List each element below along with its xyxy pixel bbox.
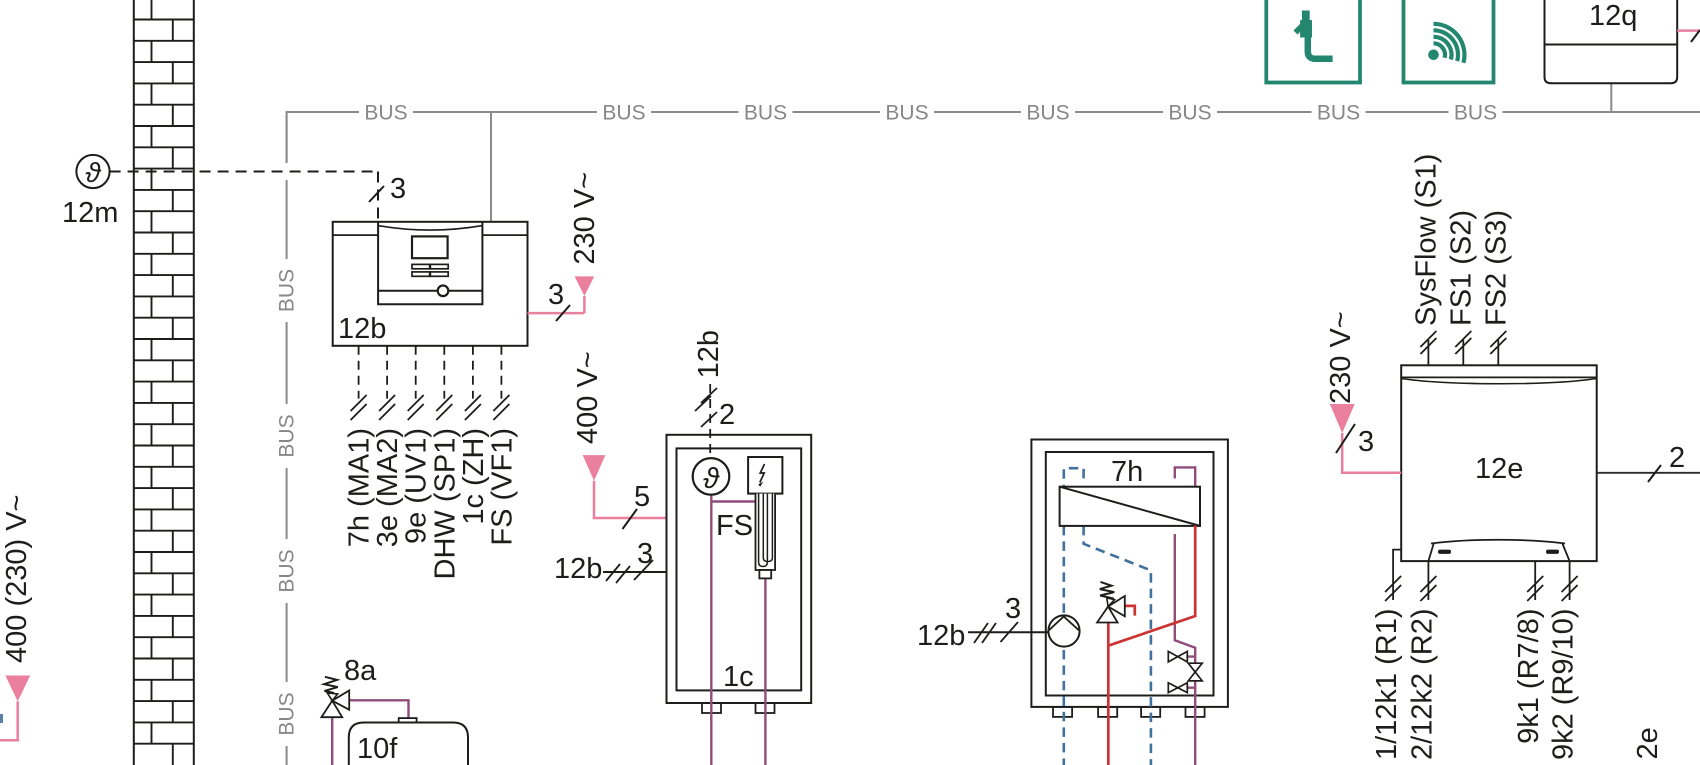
svg-text:BUS: BUS xyxy=(1454,102,1497,125)
svg-text:7h (MA1): 7h (MA1) xyxy=(344,428,376,547)
svg-text:400 (230) V~: 400 (230) V~ xyxy=(1,495,33,663)
svg-text:9k1 (R7/8): 9k1 (R7/8) xyxy=(1513,609,1545,744)
svg-text:FS1 (S2): FS1 (S2) xyxy=(1445,210,1477,326)
svg-text:8a: 8a xyxy=(344,655,377,687)
svg-text:BUS: BUS xyxy=(1026,102,1069,125)
svg-text:230 V~: 230 V~ xyxy=(1325,311,1357,404)
svg-text:10f: 10f xyxy=(357,733,398,765)
svg-text:BUS: BUS xyxy=(276,692,299,735)
svg-text:12e: 12e xyxy=(1475,453,1523,485)
svg-text:7h: 7h xyxy=(1111,456,1143,488)
svg-text:2: 2 xyxy=(1669,442,1685,474)
svg-text:12b: 12b xyxy=(693,330,725,378)
svg-text:1c: 1c xyxy=(723,661,754,693)
svg-text:1c (ZH): 1c (ZH) xyxy=(458,428,490,525)
svg-text:SysFlow (S1): SysFlow (S1) xyxy=(1410,154,1442,326)
svg-text:12b: 12b xyxy=(338,313,386,345)
svg-text:BUS: BUS xyxy=(276,269,299,312)
svg-text:FS (VF1): FS (VF1) xyxy=(486,428,518,546)
svg-text:12q: 12q xyxy=(1589,0,1637,32)
svg-text:BUS: BUS xyxy=(744,102,787,125)
svg-text:FS: FS xyxy=(716,510,753,542)
svg-text:3: 3 xyxy=(1358,426,1374,458)
svg-text:ϑ: ϑ xyxy=(85,157,102,188)
svg-text:1/12k1 (R1): 1/12k1 (R1) xyxy=(1371,609,1403,761)
svg-text:2: 2 xyxy=(719,399,735,431)
svg-text:ϑ: ϑ xyxy=(703,463,720,495)
svg-text:FS2 (S3): FS2 (S3) xyxy=(1480,210,1512,326)
svg-text:BUS: BUS xyxy=(276,414,299,457)
svg-text:5: 5 xyxy=(634,481,650,513)
svg-text:BUS: BUS xyxy=(1317,102,1360,125)
svg-text:BUS: BUS xyxy=(276,549,299,592)
svg-text:2/12k2 (R2): 2/12k2 (R2) xyxy=(1406,609,1438,761)
svg-text:12b: 12b xyxy=(917,620,965,652)
svg-text:BUS: BUS xyxy=(885,102,928,125)
svg-text:3: 3 xyxy=(1005,593,1021,625)
svg-text:BUS: BUS xyxy=(602,102,645,125)
svg-text:DHW (SP1): DHW (SP1) xyxy=(429,428,461,579)
svg-text:12m: 12m xyxy=(62,197,118,229)
svg-text:BUS: BUS xyxy=(1168,102,1211,125)
svg-text:400 V~: 400 V~ xyxy=(572,351,604,444)
svg-text:3: 3 xyxy=(637,538,653,570)
svg-text:2e: 2e xyxy=(1632,727,1664,759)
svg-text:230 V~: 230 V~ xyxy=(569,172,601,265)
svg-text:9k2 (R9/10): 9k2 (R9/10) xyxy=(1548,609,1580,761)
svg-text:BUS: BUS xyxy=(364,102,407,125)
svg-text:3: 3 xyxy=(548,279,564,311)
svg-text:12b: 12b xyxy=(554,553,602,585)
svg-text:9e (UV1): 9e (UV1) xyxy=(401,428,433,544)
svg-text:3e (MA2): 3e (MA2) xyxy=(372,428,404,547)
svg-text:3: 3 xyxy=(390,173,406,205)
